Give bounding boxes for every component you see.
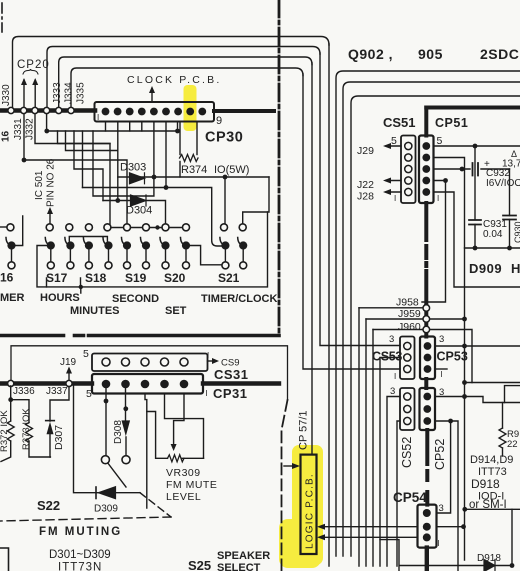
svg-text:3: 3 (390, 386, 395, 397)
svg-text:TIMER/CLOCK: TIMER/CLOCK (201, 293, 277, 305)
svg-text:S25: S25 (188, 558, 211, 571)
svg-text:5: 5 (86, 388, 92, 400)
svg-text:J959: J959 (398, 308, 421, 320)
svg-text:IO(5W): IO(5W) (214, 164, 249, 176)
svg-text:MINUTES: MINUTES (70, 305, 120, 317)
svg-text:S17: S17 (46, 271, 68, 285)
svg-text:9: 9 (216, 115, 222, 127)
svg-text:CS52: CS52 (400, 437, 414, 468)
svg-text:D307: D307 (53, 425, 65, 450)
svg-text:H: H (511, 261, 520, 276)
svg-text:CP30: CP30 (205, 130, 243, 146)
svg-text:S18: S18 (85, 271, 107, 285)
svg-text:5: 5 (83, 348, 89, 360)
svg-text:CP52: CP52 (433, 439, 447, 470)
svg-text:I: I (437, 194, 439, 203)
svg-text:S20: S20 (164, 271, 186, 285)
svg-text:I6V/IOO: I6V/IOO (486, 178, 520, 189)
svg-text:I: I (441, 370, 443, 379)
svg-text:J336: J336 (13, 386, 35, 397)
svg-text:J28: J28 (357, 191, 374, 203)
svg-text:3: 3 (439, 503, 444, 514)
svg-text:S19: S19 (125, 271, 147, 285)
svg-text:D918: D918 (477, 553, 501, 564)
svg-text:J334: J334 (64, 82, 75, 104)
svg-text:LOGIC P.C.B.: LOGIC P.C.B. (305, 473, 316, 549)
svg-text:LEVEL: LEVEL (166, 491, 201, 503)
svg-text:J333: J333 (52, 82, 63, 104)
svg-text:16: 16 (1, 130, 12, 142)
svg-text:J330: J330 (1, 84, 12, 106)
svg-text:D914,D9: D914,D9 (470, 454, 513, 466)
svg-text:Δ: Δ (511, 149, 517, 159)
svg-text:J22: J22 (357, 179, 374, 191)
svg-text:5: 5 (437, 135, 443, 147)
svg-text:CS51: CS51 (383, 115, 416, 130)
svg-text:MER: MER (0, 292, 25, 304)
svg-text:22: 22 (507, 439, 518, 450)
svg-text:I: I (207, 351, 209, 360)
svg-text:FM MUTING: FM MUTING (39, 526, 122, 538)
svg-text:CS31: CS31 (214, 367, 249, 382)
svg-text:HOURS: HOURS (40, 292, 80, 304)
svg-text:J19: J19 (60, 357, 77, 368)
svg-text:J958: J958 (396, 297, 419, 309)
svg-text:J29: J29 (357, 145, 374, 157)
svg-text:D909: D909 (469, 261, 502, 276)
svg-text:I: I (206, 389, 208, 398)
svg-text:I: I (394, 194, 396, 203)
svg-text:I: I (97, 113, 99, 122)
svg-text:VR309: VR309 (166, 467, 201, 479)
svg-text:CS53: CS53 (372, 350, 402, 364)
svg-text:D303: D303 (120, 162, 146, 174)
svg-text:CP31: CP31 (213, 386, 248, 401)
svg-text:J960: J960 (398, 321, 421, 333)
svg-text:D918: D918 (471, 477, 500, 491)
svg-text:R373 IOK: R373 IOK (21, 408, 32, 450)
svg-text:C930: C930 (513, 221, 520, 243)
svg-text:Q902 ,: Q902 , (348, 46, 393, 62)
svg-text:905: 905 (418, 46, 443, 62)
svg-text:3: 3 (439, 387, 444, 398)
svg-text:2SDC: 2SDC (480, 46, 519, 62)
svg-text:ITT73N: ITT73N (58, 562, 102, 571)
svg-text:J337: J337 (46, 386, 68, 397)
svg-text:D304: D304 (126, 205, 152, 217)
svg-text:J331: J331 (13, 118, 24, 140)
svg-text:I: I (438, 539, 440, 548)
svg-text:CP54: CP54 (393, 490, 427, 505)
svg-text:I: I (394, 372, 396, 381)
svg-text:CP53: CP53 (437, 350, 468, 364)
svg-text:SELECT: SELECT (217, 562, 261, 571)
svg-text:PIN NO 26: PIN NO 26 (46, 158, 57, 207)
svg-text:J335: J335 (76, 82, 87, 104)
svg-text:0.04: 0.04 (483, 229, 503, 240)
svg-text:3: 3 (389, 334, 394, 345)
svg-text:J332: J332 (25, 118, 36, 140)
svg-text:CP51: CP51 (435, 116, 468, 130)
svg-text:S22: S22 (37, 498, 60, 513)
svg-text:D309: D309 (94, 504, 118, 515)
svg-text:CLOCK P.C.B.: CLOCK P.C.B. (127, 74, 221, 86)
svg-text:16: 16 (0, 271, 14, 285)
svg-text:SET: SET (165, 305, 187, 317)
svg-text:R372 IOK: R372 IOK (0, 410, 10, 452)
svg-text:IC 501: IC 501 (34, 170, 45, 200)
svg-text:D301~D309: D301~D309 (49, 549, 111, 561)
svg-text:CP20: CP20 (17, 59, 50, 71)
svg-text:3: 3 (439, 334, 444, 345)
svg-text:R374: R374 (181, 164, 207, 176)
svg-text:or SM-I: or SM-I (469, 499, 507, 511)
svg-text:CP 57/1: CP 57/1 (298, 410, 310, 450)
svg-text:SECOND: SECOND (112, 293, 159, 305)
svg-text:S21: S21 (218, 271, 240, 285)
svg-text:D308: D308 (113, 420, 124, 444)
svg-text:FM MUTE: FM MUTE (166, 479, 217, 491)
svg-text:5: 5 (391, 135, 397, 147)
svg-text:SPEAKER: SPEAKER (217, 550, 270, 562)
